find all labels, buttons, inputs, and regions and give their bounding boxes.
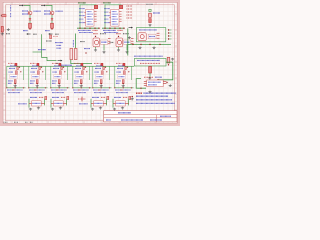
label driver 4 r1 <box>76 65 82 67</box>
wire transformer top <box>75 34 77 49</box>
ic U2 body <box>111 10 119 27</box>
label top driver 5 a <box>94 62 100 64</box>
capacitor driver 2 <box>39 67 41 70</box>
title text <box>118 112 131 114</box>
junction bottom driver 5 <box>92 87 93 88</box>
net label top IC 2 <box>103 2 111 4</box>
resistor R30 vertical <box>149 66 152 73</box>
wire stub left <box>33 51 42 53</box>
relay K3 label box <box>148 34 156 38</box>
label driver 2 r1 <box>32 65 38 67</box>
marks top bottom-cell 2 <box>52 96 59 98</box>
relay label box driver 3 <box>54 75 62 79</box>
marks top bottom-cell 4 <box>114 96 121 98</box>
capacitor top driver 4 <box>81 63 83 66</box>
label bottom driver 5 1 <box>93 89 109 91</box>
relay label box driver 4 <box>76 75 84 79</box>
wire emitter Q2 <box>51 15 53 18</box>
ground bottom-cell 1 b <box>37 107 40 110</box>
hier pin input cell 2 <box>41 4 45 6</box>
relay label box driver 1 <box>10 75 18 79</box>
ground relay 1 a <box>94 49 97 52</box>
wire rails bottom-cell 3 <box>90 99 92 108</box>
pins left IC 1 <box>84 12 85 14</box>
file text <box>106 119 111 121</box>
capacitor top bottom-cell 3 <box>107 96 109 99</box>
junction bottom driver 1 <box>6 87 7 88</box>
ground left column <box>7 28 10 31</box>
capacitor C1 top <box>94 5 97 8</box>
ground driver 5 <box>100 85 103 88</box>
wire collector cell 2 <box>46 5 52 10</box>
relay K3 coil <box>138 33 146 41</box>
resistor driver 1 b <box>14 80 16 84</box>
resistor driver 2 a <box>38 71 40 75</box>
label bottom driver 4 2 <box>74 92 86 94</box>
wire rail left driver 1 <box>6 66 8 88</box>
resistor driver 6 a <box>124 71 126 75</box>
pins left IC 2 <box>109 12 110 14</box>
note text mid line3 <box>57 47 62 49</box>
label bottom driver 2 1 <box>29 89 45 91</box>
junction driver 3 bottom <box>59 83 60 84</box>
title block divider 1 <box>104 114 177 116</box>
relay K1 coil box <box>93 38 100 47</box>
junction driver 2 top <box>41 67 42 68</box>
resistor driver 5 b <box>100 80 102 84</box>
label driver 5 low <box>94 80 99 82</box>
label bottom driver 3 2 <box>52 92 64 94</box>
junction node 2 <box>51 28 52 29</box>
capacitor top bottom-cell 1 <box>45 96 47 99</box>
pins right J5 <box>163 80 166 82</box>
ground bottom-cell 3 b <box>99 107 102 110</box>
diode D9 <box>149 19 152 23</box>
junction bottom driver 6 <box>114 87 115 88</box>
transformer T1 winding left <box>70 48 73 59</box>
transformer T1 winding right <box>74 48 77 59</box>
wire emitter Q1 <box>29 15 31 18</box>
ground bottom-cell 3 a <box>91 108 94 111</box>
capacitor driver 1 <box>17 67 19 70</box>
net label text vertical <box>10 6 12 12</box>
power label +12V <box>146 3 153 5</box>
pins right relay 2 <box>131 38 134 40</box>
label driver 1 r3 <box>9 71 14 73</box>
label dark mid <box>46 40 52 42</box>
capacitor top bottom-cell 2 <box>67 96 69 99</box>
pins right IC 2 <box>119 11 121 13</box>
wire left rail IC 1 <box>79 4 81 28</box>
junction bottom driver 3 <box>50 87 51 88</box>
capacitor top driver 5 <box>101 63 103 66</box>
text in J5 <box>148 81 161 83</box>
pins right IC 1 <box>94 11 96 13</box>
wire loop connector left <box>136 79 146 89</box>
marks above connector <box>144 76 153 78</box>
label driver 6 r2 <box>117 67 123 69</box>
label driver 4 r3 <box>75 71 80 73</box>
capacitor driver 5 <box>103 67 105 70</box>
wire bottom driver 1 <box>7 87 26 89</box>
wire relay 1 down <box>95 47 97 49</box>
capacitor driver 3 <box>61 67 63 70</box>
labels left IC 1 <box>79 8 85 10</box>
wire rails bottom-cell 4 <box>112 99 114 108</box>
wire top IC 2 <box>105 5 121 9</box>
ground mid right rail <box>128 36 131 39</box>
label bottom driver 5 2 <box>94 92 106 94</box>
resistor driver 4 a <box>82 71 84 75</box>
junction driver 6 bottom <box>123 83 124 84</box>
label mid right top <box>139 29 157 31</box>
label driver 6 r1 <box>118 65 124 67</box>
pins bottom-cell 2 <box>51 102 54 104</box>
label top driver 6 a <box>116 62 122 64</box>
label driver 4 r2 <box>75 67 81 69</box>
label driver 1 low <box>8 80 13 82</box>
diode D1 <box>29 18 31 20</box>
label driver 3 low <box>52 80 57 82</box>
label driver 5 r3 <box>95 71 100 73</box>
misc marks right of transformer <box>80 41 85 43</box>
label driver 5 r2 <box>95 67 101 69</box>
ground driver 4 <box>80 85 83 88</box>
label driver 2 r2 <box>31 67 37 69</box>
relay K1 label box <box>101 40 108 44</box>
resistor driver 6 b <box>122 80 124 84</box>
varistor RV1 <box>167 57 170 63</box>
title block divider 2 <box>104 117 177 119</box>
label bottom driver 3 1 <box>51 89 67 91</box>
wire bottom driver 6 <box>115 87 134 89</box>
wire main bus <box>7 65 135 67</box>
relay label box driver 2 <box>32 75 40 79</box>
junction driver 1 top <box>19 67 20 68</box>
capacitor driver 6 <box>125 67 127 70</box>
ic U1 pin text <box>87 11 92 13</box>
wire rail right driver 3 <box>66 66 68 80</box>
junction bottom driver 4 <box>72 87 73 88</box>
junction dots IC 2 <box>104 28 105 29</box>
relay K2 label box <box>124 40 131 44</box>
wire diode-resistor 2 <box>51 21 53 24</box>
wire rail left driver 4 <box>72 66 74 88</box>
label ref Q1 <box>22 10 28 12</box>
junction relay 1 <box>95 36 96 37</box>
label right Q1 <box>34 10 42 12</box>
notes line 1 <box>136 92 142 94</box>
wire bottom bus IC 2 <box>102 27 125 29</box>
wire rails bottom-cell 2 <box>50 99 52 108</box>
label bottom IC 1 line2 <box>79 32 93 34</box>
label driver 6 r3 <box>117 71 122 73</box>
wire loop mid right <box>136 28 165 42</box>
wire transformer bottom <box>71 60 92 64</box>
diode D2 <box>51 18 53 20</box>
note text mid line2 <box>57 44 62 46</box>
label pin bottom 2 <box>55 33 59 35</box>
resistor driver 3 a <box>60 71 62 75</box>
wire top IC 1 <box>80 5 96 9</box>
label driver 3 r1 <box>54 65 60 67</box>
ground driver 2 <box>36 85 39 88</box>
junction driver 5 bottom <box>101 83 102 84</box>
label top driver 3 a <box>52 62 58 64</box>
pins right IC 2 ext <box>127 5 133 7</box>
relay label box driver 6 <box>118 75 126 79</box>
label val Q2 <box>44 13 50 15</box>
label bottom driver 1 2 <box>8 92 20 94</box>
wire rails bottom-cell 1 <box>28 99 30 108</box>
text between relays <box>110 41 114 43</box>
wire bottom driver 5 <box>93 87 112 89</box>
label driver 6 low <box>116 80 121 82</box>
title block outline <box>104 111 177 122</box>
wire rail right driver 4 <box>88 66 90 80</box>
ic U2 pin text <box>112 11 117 13</box>
wire collector cell 1 <box>24 5 30 10</box>
junction right loop <box>157 79 158 80</box>
capacitor top driver 6 <box>123 63 125 66</box>
red pins in right box <box>140 62 160 64</box>
resistor R2 <box>51 23 54 28</box>
hier pin mid right <box>129 27 132 29</box>
power flag <box>149 9 151 11</box>
transistor Q2 <box>50 11 54 15</box>
label right Q2 <box>56 10 64 12</box>
capacitor top driver 1 <box>15 63 17 66</box>
label bottom driver 2 2 <box>30 92 42 94</box>
junction driver 2 bottom <box>37 83 38 84</box>
label bottom driver 1 1 <box>7 89 23 91</box>
label above wire <box>38 49 46 51</box>
wire rail right driver 2 <box>44 66 46 80</box>
label bottom IC 2 line2 <box>104 32 118 34</box>
label bottom IC 1 line1 <box>78 29 91 31</box>
label bottom IC 2 line1 <box>103 29 116 31</box>
pins right K3 <box>157 32 160 34</box>
wire relay 2 down <box>118 47 120 49</box>
ground bottom-cell 1 a <box>29 108 32 111</box>
junction node 1 <box>29 28 30 29</box>
pins left J5 <box>144 80 147 82</box>
ground driver 1 <box>14 85 17 88</box>
wire mid right rail <box>127 28 129 55</box>
pins bottom-cell 1 <box>29 102 32 104</box>
label F2 <box>153 12 160 14</box>
label above right box <box>134 55 163 57</box>
sheet text <box>160 115 171 117</box>
label driver 1 r1 <box>10 65 16 67</box>
label top driver 2 a <box>30 62 36 64</box>
junction driver 5 top <box>105 67 106 68</box>
capacitor top bottom-cell 4 <box>129 96 131 99</box>
hier pin bottom cell 1 <box>26 33 28 35</box>
junction bottom driver 2 <box>28 87 29 88</box>
transistor Q1 <box>28 11 32 15</box>
capacitor top driver 3 <box>59 63 61 66</box>
junction dots IC 1 <box>79 28 80 29</box>
label left of bottom cell 1 <box>18 103 27 105</box>
wire bottom driver 3 <box>51 87 70 89</box>
ground bottom-cell 4 b <box>121 107 124 110</box>
wire bottom driver 2 <box>29 87 48 89</box>
wire bus mid right <box>128 43 171 45</box>
notes line 2 <box>136 95 168 97</box>
marks top bottom-cell 3 <box>92 96 99 98</box>
ground relay 2 a <box>117 49 120 52</box>
label top driver 1 a <box>8 62 14 64</box>
label top driver 4 a <box>74 62 80 64</box>
text in right box <box>137 59 160 61</box>
ground under R30 <box>148 77 151 80</box>
capacitor top driver 2 <box>37 63 39 66</box>
wire box right <box>134 58 166 66</box>
note text mid line1 <box>55 42 63 44</box>
capacitor C2 top <box>119 5 122 8</box>
ground relay 2 b <box>125 51 128 54</box>
label under cell 2 <box>45 30 50 32</box>
ground under R20 <box>1 33 4 36</box>
label driver 1 r2 <box>9 67 15 69</box>
wire right loop down <box>158 62 173 80</box>
fuse F2 <box>149 13 152 17</box>
junction driver 4 top <box>85 67 86 68</box>
junction driver 3 top <box>63 67 64 68</box>
junction RV1 <box>168 64 169 65</box>
connector J5 box <box>147 80 164 87</box>
capacitor driver 4 <box>83 67 85 70</box>
wire bottom driver 4 <box>73 87 92 89</box>
wire rail right driver 6 <box>130 66 132 80</box>
marks top bottom-cell 1 <box>30 96 37 98</box>
wire rail right driver 5 <box>108 66 110 80</box>
resistor R20 vertical left <box>1 27 3 33</box>
label ref Q2 <box>44 10 50 12</box>
label driver 3 r3 <box>53 71 58 73</box>
label driver 5 r1 <box>96 65 102 67</box>
relay K2 coil box <box>116 38 123 47</box>
ground bottom-cell 2 a <box>51 108 54 111</box>
ground notes-left <box>131 98 134 101</box>
wire bottom bus IC 1 <box>77 27 100 29</box>
label bottom driver 6 1 <box>115 89 131 91</box>
ground driver 6 <box>122 85 125 88</box>
ground under J5 <box>148 91 151 94</box>
pins bottom-cell 3 <box>91 102 94 104</box>
label bottom driver 4 1 <box>73 89 89 91</box>
resistor driver 5 a <box>102 71 104 75</box>
ground right of RV1 <box>171 58 174 61</box>
notes line 4 <box>136 102 175 104</box>
ground mid right b <box>152 46 155 49</box>
pins right relay 1 <box>108 38 111 40</box>
label pin bottom 1 <box>33 33 37 35</box>
resistor driver 2 b <box>36 80 38 84</box>
resistor R1 <box>29 23 32 28</box>
wire rail right driver 1 <box>22 66 24 80</box>
label AC <box>56 62 60 64</box>
label val Q1 <box>22 13 28 15</box>
title block vertical divider <box>156 115 158 122</box>
wire to transformer <box>42 34 57 60</box>
box bottom-cell 1 <box>32 101 42 106</box>
label above relay 2 <box>116 33 121 35</box>
relay label box driver 5 <box>96 75 104 79</box>
regulator U3 <box>50 35 52 39</box>
label driver 2 low <box>30 80 35 82</box>
label above relay 1 <box>93 33 98 35</box>
wire diode-resistor 1 <box>29 21 31 24</box>
hier pin input cell 1 <box>19 4 23 6</box>
junction column right K3 <box>168 29 169 30</box>
labels left IC 2 <box>104 8 110 10</box>
hier pin bottom cell 2 <box>48 33 50 35</box>
ic U1 body <box>86 10 94 27</box>
net label text vertical 2 <box>10 13 12 18</box>
box bottom-cell 2 <box>54 101 64 106</box>
wire rail left driver 5 <box>92 66 94 88</box>
label bottom driver 6 2 <box>116 92 128 94</box>
label driver 3 r2 <box>53 67 59 69</box>
resistor driver 1 a <box>16 71 18 75</box>
label under cell 1 <box>23 30 28 32</box>
junction relay 2 <box>118 36 119 37</box>
junction J5 <box>140 88 141 89</box>
hier pin AC input <box>58 60 62 62</box>
box bottom-cell 3 <box>94 101 104 106</box>
spark gap symbol <box>78 98 86 100</box>
ground power column <box>148 24 151 27</box>
ground mid right a <box>138 46 141 49</box>
ground relay 1 b <box>102 51 105 54</box>
ground bottom-cell 2 b <box>59 107 62 110</box>
sheet info bottom left <box>4 121 9 123</box>
label driver 2 r3 <box>31 71 36 73</box>
label driver 4 low <box>74 80 79 82</box>
net label top IC 1 <box>78 2 86 4</box>
wire left rail IC 2 <box>104 4 106 28</box>
resistor driver 3 b <box>58 80 60 84</box>
wire rail left driver 3 <box>50 66 52 88</box>
pins bottom-cell 4 <box>113 102 116 104</box>
wire R30 down <box>149 73 151 77</box>
label transformer value <box>60 64 72 66</box>
box bottom-cell 4 <box>116 101 126 106</box>
net name vertical transformer <box>72 40 74 47</box>
wire rail left driver 2 <box>28 66 30 88</box>
ground right J5 <box>169 84 172 87</box>
junction driver 1 bottom <box>15 83 16 84</box>
junction driver 4 bottom <box>81 83 82 84</box>
ground bottom-cell 4 a <box>113 108 116 111</box>
junction driver 6 top <box>127 67 128 68</box>
resistor driver 4 b <box>80 80 82 84</box>
wire rail left driver 6 <box>114 66 116 88</box>
fuse F1 <box>2 15 6 17</box>
notes line 3 <box>136 99 172 101</box>
ground driver 3 <box>58 85 61 88</box>
junctions bus mid right <box>132 44 133 45</box>
